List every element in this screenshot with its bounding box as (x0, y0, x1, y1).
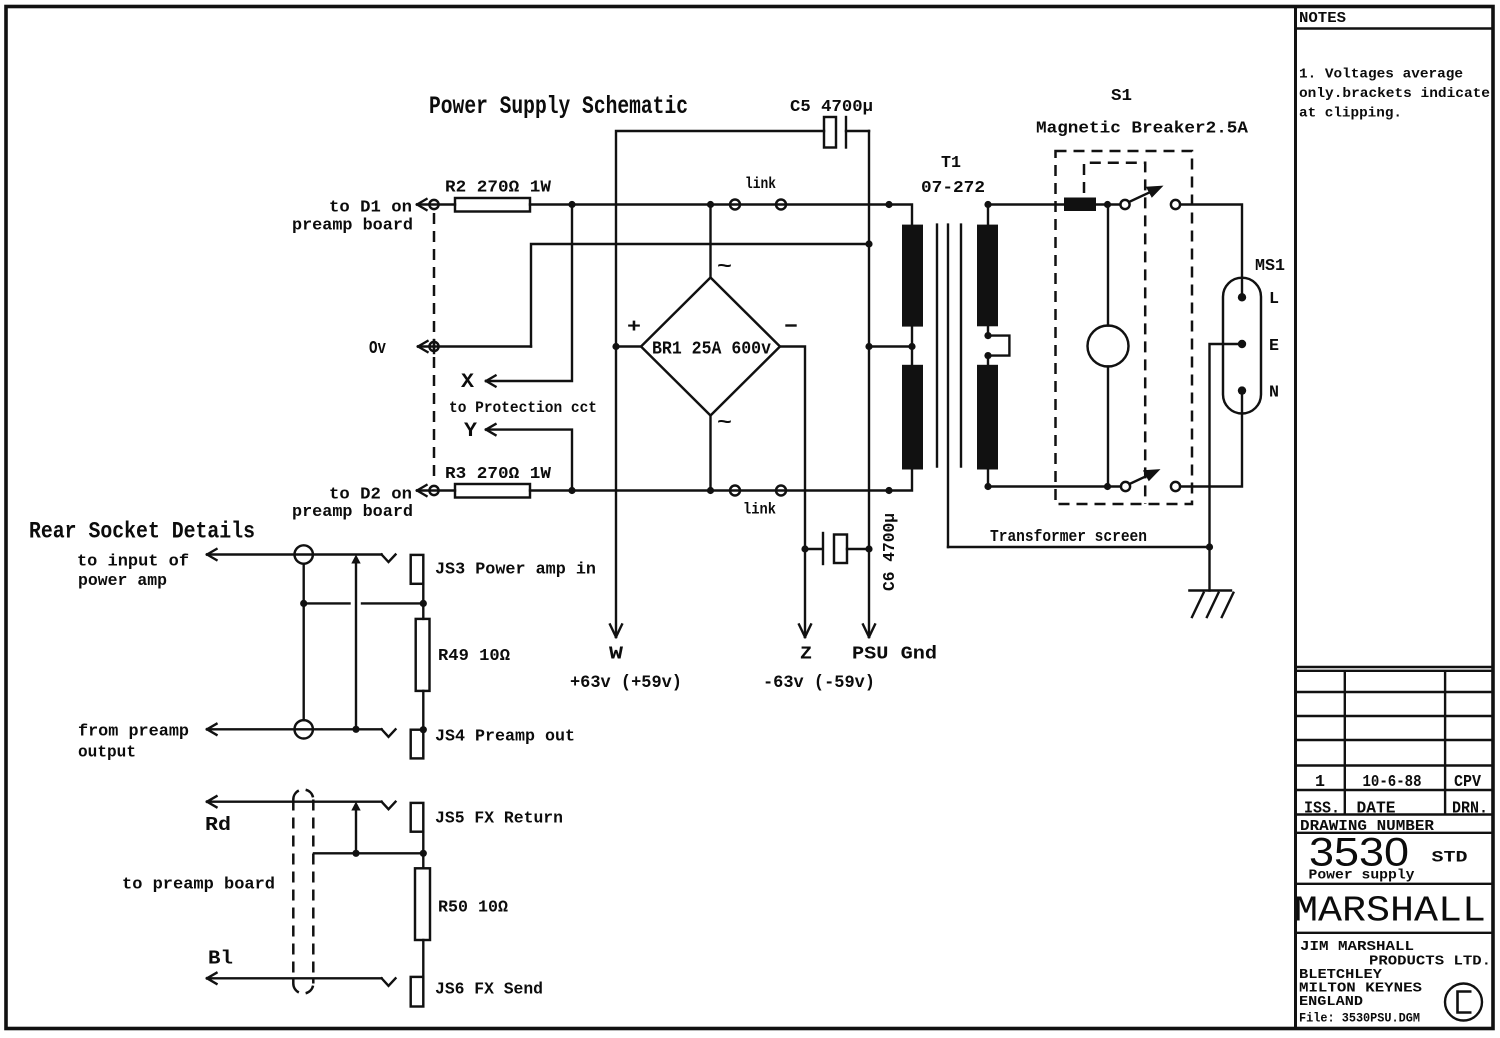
label: to D2 on preamp board (292, 486, 413, 523)
svg-text:Bl: Bl (208, 948, 233, 970)
jack JS3 (411, 555, 596, 584)
svg-text:DRN.: DRN. (1452, 799, 1488, 818)
node: D2 terminal circle (429, 486, 438, 495)
svg-text:BR1 25A 600v: BR1 25A 600v (652, 340, 771, 360)
svg-text:File: 3530PSU.DGM: File: 3530PSU.DGM (1299, 1011, 1420, 1026)
connector MS1 (1223, 256, 1285, 414)
svg-text:MS1: MS1 (1255, 256, 1285, 275)
wire primary top terminal (988, 205, 1064, 225)
jack JS4 (411, 726, 575, 758)
capacitor C6 (805, 513, 899, 591)
svg-text:N: N (1269, 383, 1279, 402)
wire: top link row (530, 205, 912, 225)
cable screen dashed (293, 790, 313, 994)
breaker S1 outer dashed box (1056, 151, 1193, 504)
svg-text:10-6-88: 10-6-88 (1363, 772, 1422, 791)
wire bush link row (300, 564, 427, 720)
bridge rectifier BR1 (627, 256, 796, 434)
label: from preamp output (78, 723, 189, 763)
transformer T1 core (937, 225, 961, 467)
wire preamp-out row with arrow (207, 724, 396, 737)
title: Power Supply Schematic (429, 92, 688, 121)
svg-text:Z: Z (800, 644, 812, 665)
resistor R49 (416, 619, 510, 691)
svg-text:L: L (1269, 289, 1279, 308)
svg-text:~: ~ (717, 412, 732, 434)
svg-text:Rd: Rd (205, 814, 231, 836)
wire FX send row with arrow (207, 973, 396, 986)
wire top switch to L (1180, 205, 1242, 298)
svg-text:Rear Socket Details: Rear Socket Details (29, 519, 255, 545)
svg-text:MARSHALL: MARSHALL (1294, 891, 1486, 932)
transformer T1 label (921, 153, 985, 197)
svg-text:JS4 Preamp out: JS4 Preamp out (435, 728, 575, 747)
transformer screen line (948, 225, 1147, 547)
svg-text:from preamp: from preamp (78, 723, 189, 742)
transformer T1 primary winding (right) (977, 225, 998, 470)
svg-text:C6 4700µ: C6 4700µ (880, 513, 899, 591)
svg-text:1. Voltages average: 1. Voltages average (1299, 67, 1463, 83)
wire bridge - to Z rail (780, 347, 805, 638)
node Z arrow (763, 625, 875, 694)
drawing number 3530 STD (1296, 831, 1494, 884)
wire R50 to JS6 (422, 940, 424, 977)
svg-text:R2 270Ω 1W: R2 270Ω 1W (445, 179, 552, 198)
label: to input of power amp (77, 553, 189, 592)
wire JS3 to R49 (422, 584, 424, 619)
title: Rear Socket Details (29, 519, 255, 545)
svg-text:R50 10Ω: R50 10Ω (438, 899, 508, 918)
label: to Protection cct (449, 399, 597, 417)
svg-text:T1: T1 (941, 153, 961, 172)
resistor R2 (445, 179, 552, 212)
wire: bottom link row (530, 470, 912, 491)
svg-text:PRODUCTS LTD.: PRODUCTS LTD. (1369, 954, 1491, 970)
jack switch arrow (FX) (351, 802, 360, 857)
svg-text:Ov: Ov (369, 339, 386, 359)
breaker S1 inner dashed box (1084, 163, 1145, 504)
wire R49 to JS4 (422, 691, 424, 730)
label: to D1 on preamp board (292, 199, 413, 236)
svg-text:ENGLAND: ENGLAND (1299, 994, 1363, 1010)
node: D1 terminal circle (429, 200, 438, 209)
wire C5 top row (616, 131, 869, 637)
label Rd (205, 814, 231, 836)
svg-text:output: output (78, 744, 136, 763)
svg-text:to Protection cct: to Protection cct (449, 399, 597, 417)
svg-text:X: X (461, 371, 474, 394)
dashed chassis line (433, 213, 436, 483)
svg-text:+63v (+59v): +63v (+59v) (570, 673, 682, 693)
MARSHALL logo (1294, 891, 1493, 933)
svg-text:at clipping.: at clipping. (1299, 106, 1402, 122)
svg-text:to preamp board: to preamp board (122, 876, 275, 895)
wire power-amp-in row with arrow (207, 549, 396, 562)
svg-text:E: E (1269, 336, 1279, 355)
wire gnd vertical (868, 131, 870, 637)
link (bottom) (730, 486, 786, 519)
svg-text:~: ~ (717, 256, 732, 278)
wire D1 terminal to R2 (417, 203, 455, 205)
svg-text:R3 270Ω 1W: R3 270Ω 1W (445, 465, 552, 484)
jack bush circle (bottom) (295, 720, 313, 738)
svg-text:PSU Gnd: PSU Gnd (852, 644, 937, 665)
arrow to D1 (417, 199, 427, 210)
revision header row (1304, 799, 1488, 818)
svg-text:Power supply: Power supply (1309, 868, 1416, 884)
wire primary bottom terminal (988, 470, 1121, 487)
resistor R50 (415, 868, 508, 940)
svg-text:preamp board: preamp board (292, 217, 413, 236)
svg-text:Y: Y (464, 420, 477, 443)
svg-text:CPV: CPV (1454, 772, 1481, 791)
svg-text:1: 1 (1315, 772, 1325, 791)
revision table (1296, 667, 1494, 815)
svg-text:link: link (745, 175, 776, 193)
breaker S1 trip coil (1088, 205, 1129, 487)
wire D2 terminal to R3 (417, 489, 455, 491)
svg-text:W: W (609, 644, 624, 665)
resistor R3 (445, 465, 552, 498)
node PSU Gnd arrow (852, 625, 937, 665)
wire bottom switch to N (1180, 391, 1242, 487)
revision row 1 (1315, 772, 1481, 791)
svg-text:JS6 FX Send: JS6 FX Send (435, 981, 543, 1000)
svg-text:ISS.: ISS. (1304, 799, 1340, 818)
svg-text:NOTES: NOTES (1299, 10, 1346, 27)
link (top) (730, 175, 786, 210)
notes text (1299, 67, 1490, 122)
svg-text:only.brackets indicate: only.brackets indicate (1299, 86, 1490, 102)
wire sense to switch (1096, 203, 1120, 205)
svg-text:07-272: 07-272 (921, 178, 985, 197)
wire FX return row with arrow (207, 796, 396, 809)
svg-text:JS3 Power amp in: JS3 Power amp in (435, 561, 596, 580)
node X arrow (461, 205, 572, 395)
node Ov: arrow and terminal (369, 339, 531, 359)
NOTES header (1296, 10, 1494, 29)
svg-text:C5 4700µ: C5 4700µ (790, 98, 873, 117)
wire bridge AC top (709, 205, 711, 278)
svg-text:STD: STD (1432, 849, 1468, 867)
copyright mark (1445, 984, 1482, 1021)
junction dots breaker row (984, 201, 1111, 490)
breaker S1 bottom switch (1121, 469, 1180, 491)
svg-text:Power Supply Schematic: Power Supply Schematic (429, 92, 688, 121)
notes panel divider (1294, 7, 1297, 1029)
svg-text:JS5 FX Return: JS5 FX Return (435, 810, 563, 829)
svg-text:to D2 on: to D2 on (329, 486, 412, 505)
label: to preamp board (122, 876, 275, 895)
breaker S1 labels (1036, 86, 1249, 139)
jack bush circle (top) (295, 545, 313, 563)
junction dots left/bridge area (568, 201, 915, 553)
svg-text:to input of: to input of (77, 553, 189, 572)
jack switch arrow (top) (351, 555, 360, 733)
wire primary tap jumper (984, 326, 1009, 365)
capacitor C5 (790, 98, 873, 148)
label Bl (208, 948, 233, 970)
svg-text:to D1 on: to D1 on (329, 199, 412, 218)
svg-text:preamp board: preamp board (292, 503, 413, 522)
wire E to earth (1210, 344, 1243, 591)
svg-text:power amp: power amp (78, 572, 167, 591)
jack JS6 (411, 977, 543, 1007)
wire transformer screen to earth (948, 543, 1213, 550)
wire FX link row (314, 850, 427, 857)
transformer T1 secondary winding (left) (902, 225, 923, 470)
svg-text:R49 10Ω: R49 10Ω (438, 647, 510, 666)
node Y arrow (464, 420, 572, 491)
svg-text:Magnetic Breaker2.5A: Magnetic Breaker2.5A (1036, 120, 1249, 139)
svg-text:DATE: DATE (1357, 799, 1396, 818)
wire bridge + to W rail (616, 345, 641, 347)
earth ground (1189, 591, 1233, 618)
svg-text:link: link (743, 501, 776, 519)
svg-text:-63v (-59v): -63v (-59v) (763, 673, 875, 693)
wire JS5 to R50 (422, 832, 424, 869)
svg-text:+: + (627, 316, 641, 338)
jack JS5 (411, 803, 563, 832)
wire secondary centre tap (869, 345, 912, 347)
svg-text:S1: S1 (1111, 86, 1132, 105)
svg-text:Transformer screen: Transformer screen (990, 527, 1147, 546)
arrow to D2 (417, 485, 427, 496)
breaker S1 top switch (1120, 186, 1180, 209)
drawing number band (1296, 819, 1494, 835)
node W arrow (570, 625, 682, 694)
wire Ov to gnd rail (531, 244, 869, 347)
breaker S1 sense element (1064, 198, 1096, 212)
wire bridge AC bottom (709, 416, 711, 491)
company address (1299, 939, 1491, 1026)
